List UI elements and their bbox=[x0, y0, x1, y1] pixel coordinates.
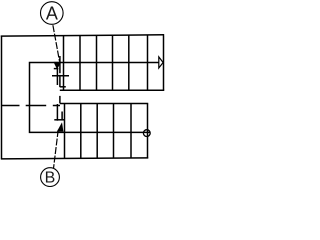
cross tick A long horizontal bbox=[52, 75, 69, 77]
tread 6 top flight bbox=[147, 36, 149, 91]
right edge of bottom flight bbox=[147, 104, 149, 159]
callout circle B bbox=[41, 168, 60, 187]
cross tick B vertical bbox=[56, 104, 58, 121]
left border bbox=[1, 36, 3, 159]
tread 3 top flight bbox=[96, 36, 98, 91]
start circle of walking line bbox=[143, 130, 150, 137]
tread 4 bottom flight bbox=[113, 104, 115, 159]
cross tick B long horizontal bbox=[54, 119, 65, 121]
svg-text:B: B bbox=[45, 170, 56, 187]
tread 1 bottom flight bbox=[64, 104, 66, 159]
bottom border bbox=[1, 158, 148, 159]
tread 1 top flight bbox=[63, 36, 65, 91]
tread 2 bottom flight bbox=[80, 104, 82, 159]
dashed landing line bbox=[2, 105, 60, 107]
top edge of bottom flight bbox=[60, 103, 148, 105]
bottom edge of top flight bbox=[60, 89, 164, 91]
tread 5 bottom flight bbox=[130, 104, 132, 159]
leader line to circle B bbox=[54, 130, 59, 168]
tread 3 bottom flight bbox=[96, 104, 98, 159]
cross tick A vertical bbox=[56, 69, 58, 85]
walking line: top flight, landing connector, bottom flight bbox=[30, 63, 159, 133]
section line A-B dashed vertical bbox=[60, 56, 62, 119]
tread 5 top flight bbox=[128, 36, 130, 91]
tread 2 top flight bbox=[79, 36, 81, 91]
tick at arrow A tip bbox=[54, 68, 59, 70]
section line jog bbox=[60, 86, 66, 88]
tread 4 top flight bbox=[112, 36, 114, 91]
svg-text:A: A bbox=[46, 3, 58, 23]
open arrowhead at end of walking line bbox=[159, 57, 163, 68]
right edge of top flight bbox=[163, 36, 165, 91]
leader line from circle A bbox=[53, 25, 60, 61]
callout circle A bbox=[41, 2, 64, 25]
arrowhead B (filled, pointing up) bbox=[57, 122, 64, 131]
arrowhead A (filled, pointing down) bbox=[54, 62, 62, 69]
top border bbox=[1, 35, 164, 36]
